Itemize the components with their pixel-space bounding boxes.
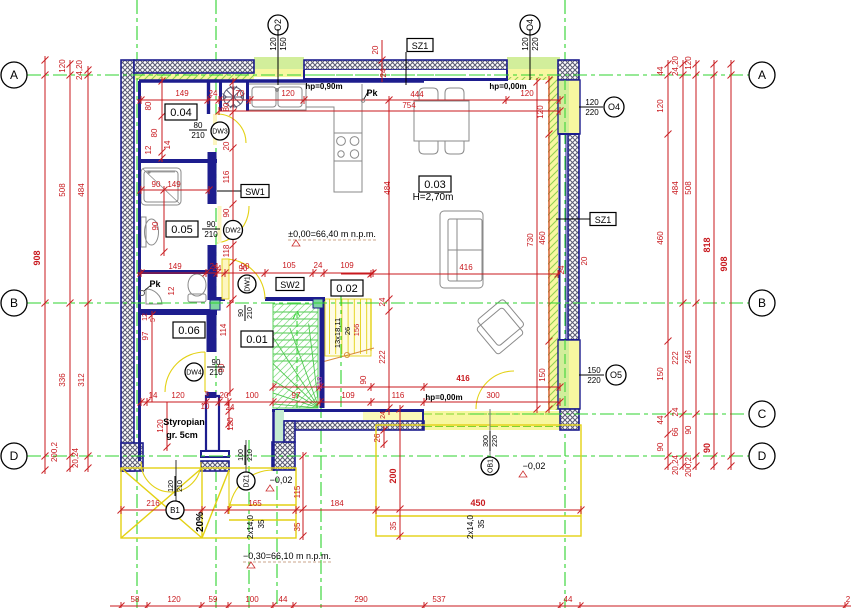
svg-text:460: 460 <box>656 231 665 245</box>
svg-text:hp=0,00m: hp=0,00m <box>425 393 462 402</box>
svg-text:24: 24 <box>557 265 566 274</box>
axis line B <box>27 302 749 304</box>
svg-text:120: 120 <box>536 105 545 119</box>
dim row porch y510 <box>121 509 581 511</box>
door DW1 label <box>238 275 256 293</box>
svg-text:B: B <box>758 296 766 310</box>
svg-text:SZ1: SZ1 <box>412 41 429 51</box>
right dim chain x696 <box>695 62 697 468</box>
stairs upper flight <box>325 299 371 356</box>
kitchen sink counter <box>248 84 306 110</box>
room label 0.03 <box>419 176 451 192</box>
interior wall 0.05-wc <box>141 270 217 274</box>
svg-text:5: 5 <box>150 318 157 322</box>
svg-text:120: 120 <box>226 417 235 431</box>
top wall segment left <box>134 60 254 73</box>
svg-text:508: 508 <box>684 181 693 195</box>
left dim chain x45 <box>44 58 46 470</box>
svg-text:0.04: 0.04 <box>170 107 191 119</box>
door DW2 label <box>224 221 243 240</box>
svg-text:115: 115 <box>293 485 302 498</box>
axis circle A left <box>1 62 27 88</box>
svg-text:DW1: DW1 <box>244 276 251 292</box>
svg-text:DZ1: DZ1 <box>243 474 250 487</box>
svg-text:A: A <box>758 68 766 82</box>
svg-text:120: 120 <box>168 480 175 492</box>
axis circle C right <box>749 401 775 427</box>
svg-text:908: 908 <box>32 250 42 265</box>
insulation top wall <box>135 72 254 80</box>
dim col x229 porch <box>228 402 230 430</box>
axis line A <box>27 74 749 76</box>
room label 0.05 <box>166 221 198 237</box>
svg-text:44: 44 <box>564 595 573 604</box>
dim row y402 <box>141 401 560 403</box>
svg-text:14: 14 <box>163 140 172 149</box>
chair top-left <box>419 88 438 101</box>
dim col x167 porch <box>166 402 168 450</box>
dim row y100 <box>137 99 560 101</box>
svg-text:150: 150 <box>279 37 288 51</box>
svg-text:97: 97 <box>292 391 301 400</box>
svg-text:24: 24 <box>209 89 218 98</box>
right dim chain x731 <box>730 62 732 468</box>
svg-text:0.01: 0.01 <box>246 334 267 346</box>
svg-text:120: 120 <box>171 391 185 400</box>
svg-text:120: 120 <box>58 59 67 73</box>
dim row y276 living <box>341 273 560 275</box>
svg-text:200: 200 <box>388 468 398 483</box>
svg-text:336: 336 <box>58 373 67 387</box>
door B1 swing <box>141 462 201 492</box>
svg-text:SZ1: SZ1 <box>595 215 612 225</box>
svg-text:90: 90 <box>239 264 248 273</box>
svg-text:165: 165 <box>248 499 262 508</box>
dim row y388 <box>273 386 560 388</box>
svg-text:35: 35 <box>477 519 486 528</box>
svg-text:12: 12 <box>144 145 153 154</box>
svg-text:220: 220 <box>585 108 599 117</box>
svg-text:14: 14 <box>149 391 158 400</box>
svg-text:150: 150 <box>538 368 547 382</box>
svg-text:0.02: 0.02 <box>336 283 357 295</box>
opening OB1 fill <box>424 411 560 430</box>
label SW1 <box>241 185 269 198</box>
dim row y190 shower <box>141 189 209 191</box>
top wall SZ1 window hatch <box>304 60 507 70</box>
door OB1 swing <box>476 371 514 409</box>
porch roof diagonals <box>121 468 229 538</box>
svg-text:20: 20 <box>220 391 229 400</box>
axis circle D right <box>749 443 775 469</box>
svg-text:2: 2 <box>846 595 851 604</box>
svg-text:58: 58 <box>131 595 140 604</box>
svg-text:100: 100 <box>245 391 259 400</box>
svg-text:484: 484 <box>383 181 392 195</box>
terrace outline <box>376 425 581 536</box>
svg-text:26: 26 <box>343 327 352 335</box>
svg-text:24: 24 <box>226 403 235 412</box>
svg-text:120: 120 <box>585 98 599 107</box>
svg-text:12: 12 <box>167 286 176 295</box>
svg-text:C: C <box>758 407 767 421</box>
svg-text:116: 116 <box>392 391 405 400</box>
svg-text:90: 90 <box>152 180 161 189</box>
left exterior wall <box>121 60 134 471</box>
svg-text:12: 12 <box>142 313 149 321</box>
chair top-right <box>445 88 464 101</box>
axis vertical x277 <box>276 408 278 608</box>
svg-text:444: 444 <box>410 90 424 99</box>
right wall window SZ1 <box>568 134 579 340</box>
axis circle B left <box>1 290 27 316</box>
kitchen counter with hob <box>306 84 362 192</box>
label SZ1 right <box>590 213 616 226</box>
svg-text:109: 109 <box>341 391 355 400</box>
bottom-right corner block <box>560 409 579 430</box>
interior wall wc-0.06 <box>141 309 217 315</box>
interior wall hall-0.06 <box>207 310 217 398</box>
door pier B1-DZ1 <box>206 396 219 451</box>
label SW1 leader <box>217 190 241 192</box>
svg-text:220: 220 <box>587 376 601 385</box>
svg-text:24: 24 <box>213 264 222 273</box>
svg-text:−0,02: −0,02 <box>270 475 293 485</box>
svg-text:B1: B1 <box>170 506 180 515</box>
svg-text:0.05: 0.05 <box>171 224 192 236</box>
shower <box>141 168 181 205</box>
axis vertical x321 <box>320 300 322 608</box>
washbasin bathroom <box>145 219 159 245</box>
svg-text:90: 90 <box>222 208 231 217</box>
dim col x537 <box>536 82 538 409</box>
dim col x233 corridor <box>232 82 234 299</box>
window O4 fill <box>507 57 560 69</box>
svg-text:90: 90 <box>359 375 368 384</box>
svg-text:200,2: 200,2 <box>50 441 59 462</box>
axis vertical x216 <box>215 0 217 608</box>
svg-text:Styropian: Styropian <box>163 417 205 427</box>
wc corner sink <box>146 289 162 304</box>
svg-text:O4: O4 <box>608 102 620 112</box>
axis line C <box>470 413 748 415</box>
terrace steps <box>376 515 581 517</box>
svg-text:66: 66 <box>671 427 680 436</box>
svg-text:222: 222 <box>671 351 680 365</box>
svg-text:10: 10 <box>201 402 210 411</box>
svg-text:−0,02: −0,02 <box>523 461 546 471</box>
svg-text:222: 222 <box>378 350 387 364</box>
svg-text:450: 450 <box>470 498 485 508</box>
svg-text:24,20: 24,20 <box>671 55 680 76</box>
svg-text:24: 24 <box>380 411 387 419</box>
room label 0.04 <box>165 104 197 120</box>
svg-text:210: 210 <box>209 368 223 377</box>
svg-text:97: 97 <box>141 331 150 340</box>
svg-text:220: 220 <box>492 435 499 447</box>
window O2 fill <box>254 57 304 69</box>
svg-text:80: 80 <box>144 101 153 110</box>
svg-text:B: B <box>10 296 18 310</box>
svg-text:120: 120 <box>167 595 181 604</box>
porch slope arrow <box>175 460 177 511</box>
svg-text:90: 90 <box>684 425 693 434</box>
svg-text:24,20: 24,20 <box>75 59 84 80</box>
svg-text:90: 90 <box>702 443 712 453</box>
dim col x164 washbasin <box>163 190 165 252</box>
svg-text:109: 109 <box>340 261 354 270</box>
svg-text:DW4: DW4 <box>186 369 202 376</box>
svg-text:DW3: DW3 <box>212 128 228 135</box>
axis O2 top <box>277 35 279 85</box>
door OB1 label <box>489 409 491 455</box>
svg-text:26: 26 <box>373 433 382 442</box>
svg-text:210: 210 <box>247 307 254 319</box>
svg-text:20: 20 <box>580 256 589 265</box>
svg-text:D: D <box>10 449 19 463</box>
svg-text:216: 216 <box>146 499 160 508</box>
svg-text:A: A <box>10 68 18 82</box>
svg-text:0.06: 0.06 <box>178 325 199 337</box>
svg-text:hp=0,00m: hp=0,00m <box>489 82 526 91</box>
right dim chain x714 <box>713 62 715 468</box>
svg-text:290: 290 <box>354 595 368 604</box>
axis vertical x565 <box>564 0 566 608</box>
door DW3 swing <box>217 114 246 143</box>
svg-text:484: 484 <box>77 183 86 197</box>
interior wall left face <box>138 81 141 461</box>
svg-text:120: 120 <box>269 37 278 51</box>
svg-text:80: 80 <box>194 121 203 130</box>
axis circle D left <box>1 443 27 469</box>
svg-text:O5: O5 <box>610 370 622 380</box>
svg-text:44: 44 <box>656 415 665 424</box>
fan symbol <box>223 86 245 108</box>
svg-text:312: 312 <box>77 373 86 387</box>
left dim chain x70 <box>69 62 71 470</box>
axis vertical x341 <box>340 292 342 407</box>
right wall window O4 <box>558 80 569 134</box>
svg-text:100: 100 <box>238 449 245 461</box>
porch step line <box>229 519 296 521</box>
svg-text:H=2,70m: H=2,70m <box>413 192 454 203</box>
svg-text:80: 80 <box>222 102 231 111</box>
dim col x549 <box>548 79 550 409</box>
svg-text:DW2: DW2 <box>225 227 241 234</box>
axis O4 right <box>579 106 603 108</box>
axis circle B right <box>749 290 775 316</box>
dim col x384 26 <box>383 428 385 448</box>
interior wall hall top <box>213 297 325 301</box>
svg-text:D: D <box>758 449 767 463</box>
door DW2 swing <box>217 206 249 243</box>
svg-text:2x14,0: 2x14,0 <box>246 514 255 539</box>
svg-text:44: 44 <box>279 595 288 604</box>
porch outline <box>121 468 296 538</box>
top wall corner block right <box>558 60 579 80</box>
svg-text:Pk: Pk <box>149 279 161 289</box>
axis vertical x137 <box>136 0 138 608</box>
svg-text:hp=0,90m: hp=0,90m <box>305 82 342 91</box>
axis O5 right <box>579 374 603 376</box>
svg-text:59: 59 <box>209 595 218 604</box>
svg-text:SW2: SW2 <box>280 280 300 290</box>
room label 0.02 <box>331 280 363 296</box>
svg-text:20%: 20% <box>195 512 206 532</box>
svg-text:210: 210 <box>177 480 184 492</box>
svg-text:20: 20 <box>371 45 380 54</box>
svg-text:35: 35 <box>257 519 266 528</box>
dim row y111 <box>219 110 560 112</box>
interior wall room 0.04 top <box>139 79 424 82</box>
svg-text:754: 754 <box>402 101 416 110</box>
svg-text:2x14,0: 2x14,0 <box>466 514 475 539</box>
door DW1 swing <box>225 259 265 299</box>
svg-text:0.03: 0.03 <box>424 179 445 191</box>
top wall SZ1 window inner <box>304 70 507 79</box>
armchair <box>472 299 528 355</box>
svg-text:120: 120 <box>684 56 693 70</box>
svg-text:35: 35 <box>293 522 302 531</box>
door DW4 swing <box>165 352 205 392</box>
svg-text:416: 416 <box>456 374 470 383</box>
svg-text:90: 90 <box>656 442 665 451</box>
svg-text:149: 149 <box>175 89 189 98</box>
dim col x389 <box>388 100 390 415</box>
svg-text:20,24: 20,24 <box>671 454 680 475</box>
svg-text:13x18,11: 13x18,11 <box>333 318 342 348</box>
svg-text:24: 24 <box>671 407 680 416</box>
axis circle A right <box>749 62 775 88</box>
svg-text:100: 100 <box>245 595 259 604</box>
svg-text:105: 105 <box>282 261 296 270</box>
svg-text:300: 300 <box>483 435 490 447</box>
bottom wall living room <box>284 421 424 430</box>
svg-text:218: 218 <box>315 377 324 390</box>
door DZ1 label <box>245 440 247 472</box>
svg-text:120: 120 <box>521 37 530 51</box>
label SW2 <box>276 278 304 291</box>
svg-text:210: 210 <box>191 131 205 140</box>
right dim chain x683 <box>682 62 684 468</box>
stairs walking line <box>293 311 301 408</box>
vestibule wall corner left <box>121 443 143 471</box>
svg-text:908: 908 <box>719 256 729 271</box>
svg-text:116: 116 <box>222 170 231 183</box>
svg-text:537: 537 <box>432 595 446 604</box>
toilet <box>188 274 206 296</box>
svg-text:818: 818 <box>702 237 712 252</box>
svg-text:149: 149 <box>167 180 181 189</box>
bottom dim row y606 <box>110 605 851 607</box>
svg-text:120: 120 <box>656 99 665 113</box>
svg-text:5: 5 <box>205 391 209 398</box>
vestibule wall corner right <box>272 442 295 470</box>
svg-text:70: 70 <box>236 89 245 98</box>
interior wall bath vertical <box>208 152 217 300</box>
svg-text:SW1: SW1 <box>245 187 265 197</box>
svg-text:−0,30=66,10 m n.p.m.: −0,30=66,10 m n.p.m. <box>243 551 331 561</box>
door DW4 label <box>185 363 203 381</box>
interior wall stairs <box>320 299 325 408</box>
svg-text:730: 730 <box>526 233 535 247</box>
lintel yellow strip <box>363 412 424 420</box>
room label 0.06 <box>173 322 205 338</box>
svg-text:460: 460 <box>538 231 547 245</box>
svg-text:118: 118 <box>222 244 231 257</box>
svg-text:300: 300 <box>486 391 500 400</box>
left dim chain x88 <box>87 68 89 470</box>
fan niche walls <box>219 81 222 111</box>
door B1 label <box>166 501 184 519</box>
door DZ1 swing <box>229 470 273 514</box>
dim col x303 <box>302 456 304 536</box>
svg-text:210: 210 <box>247 449 254 461</box>
stair break line <box>322 348 374 362</box>
dining table <box>414 101 469 141</box>
svg-text:120: 120 <box>281 89 295 98</box>
svg-text:184: 184 <box>330 499 344 508</box>
wall pier WC corner <box>210 300 220 310</box>
svg-text:gr. 5cm: gr. 5cm <box>166 430 198 440</box>
interior wall 0.04-0.05 <box>141 159 217 163</box>
chair bottom-left <box>419 141 438 154</box>
axis O4 top <box>529 35 531 80</box>
svg-text:24: 24 <box>378 297 387 306</box>
svg-text:484: 484 <box>671 181 680 195</box>
svg-text:90: 90 <box>151 221 160 230</box>
right wall window O5 <box>558 340 569 409</box>
svg-text:149: 149 <box>168 262 182 271</box>
svg-text:150: 150 <box>587 366 601 375</box>
svg-text:24: 24 <box>314 261 323 270</box>
svg-text:44: 44 <box>656 66 665 75</box>
interior wall 0.04 right <box>207 81 210 114</box>
svg-text:90: 90 <box>212 358 221 367</box>
axis line D <box>27 455 749 457</box>
chair bottom-right <box>445 141 464 154</box>
wall pier SW2 <box>313 299 323 308</box>
svg-text:200,2: 200,2 <box>684 456 693 477</box>
svg-text:156: 156 <box>352 324 361 337</box>
dim col x400 <box>399 409 401 536</box>
svg-text:80: 80 <box>150 128 159 137</box>
svg-text:±0,00=66,40 m n.p.m.: ±0,00=66,40 m n.p.m. <box>288 229 376 239</box>
dim col x162 room 0.04 <box>161 82 163 160</box>
svg-text:20,24: 20,24 <box>71 447 80 468</box>
svg-text:220: 220 <box>531 37 540 51</box>
svg-text:Pk: Pk <box>366 88 378 98</box>
svg-text:416: 416 <box>459 263 473 272</box>
door DW3 label <box>211 122 229 140</box>
svg-text:210: 210 <box>204 230 218 239</box>
stair green strip <box>273 304 318 408</box>
svg-text:35: 35 <box>389 521 398 530</box>
svg-text:508: 508 <box>58 183 67 197</box>
sofa <box>440 211 483 288</box>
stair corner mint strip <box>275 410 284 461</box>
svg-text:246: 246 <box>684 350 693 364</box>
svg-text:114: 114 <box>219 323 228 336</box>
svg-text:24: 24 <box>379 68 388 77</box>
svg-text:90: 90 <box>207 220 216 229</box>
dim row y273 <box>137 272 373 274</box>
svg-text:90: 90 <box>238 309 245 317</box>
svg-text:20: 20 <box>222 141 231 150</box>
svg-text:OB1: OB1 <box>487 459 494 473</box>
svg-text:150: 150 <box>656 367 665 381</box>
label SZ1 top <box>407 39 433 52</box>
